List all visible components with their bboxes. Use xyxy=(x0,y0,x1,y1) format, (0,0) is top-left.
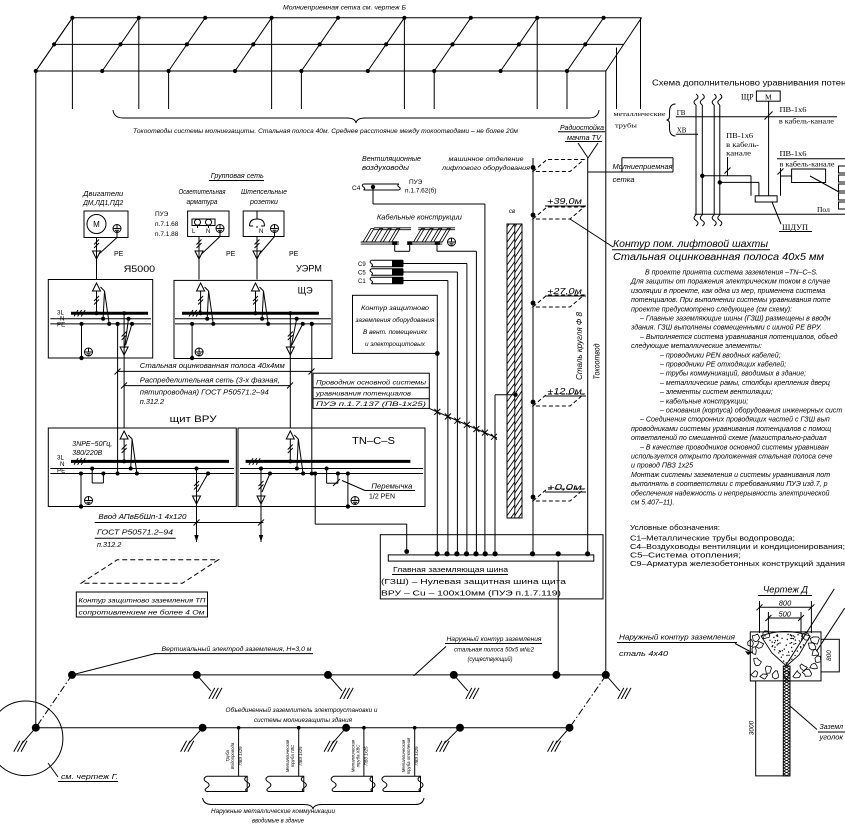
svg-text:– элементы систем вентиляции;: – элементы систем вентиляции; xyxy=(659,389,773,396)
bus VRU1 PE xyxy=(50,473,234,475)
svg-text:1/2 PEN: 1/2 PEN xyxy=(369,492,395,501)
svg-text:ПУЭ: ПУЭ xyxy=(155,211,169,218)
bar SHDUP xyxy=(755,196,777,202)
lightning mesh roof grid xyxy=(34,16,642,109)
wire from M down xyxy=(768,101,770,196)
svg-text:ПВЗ 1х25: ПВЗ 1х25 xyxy=(363,746,368,766)
svg-text:Групповая сеть: Групповая сеть xyxy=(211,173,264,180)
box VRU section 1 xyxy=(48,428,236,507)
wire entry diagonals x=96.5 xyxy=(101,287,105,291)
node mesh bottom joint 2 xyxy=(100,69,104,73)
wire net exit x=124.1 xyxy=(122,311,126,315)
pipe entering building x=414.7 xyxy=(384,776,420,791)
arrow motor PE xyxy=(93,251,101,259)
svg-text:Распределительная сеть (3-х фа: Распределительная сеть (3-х фазная, xyxy=(140,375,280,384)
svg-text:– кабельные конструкции;: – кабельные конструкции; xyxy=(659,397,748,405)
svg-text:труба ГВС: труба ГВС xyxy=(290,744,295,767)
wire PE to earth left xyxy=(190,322,194,326)
node mesh mid joint 1 xyxy=(52,42,56,46)
wire down-conductor from mast x=587.7 xyxy=(587,158,589,553)
wire radiator leader to legend xyxy=(810,176,839,192)
legend mini boxes right edge xyxy=(839,166,845,173)
svg-text:арматура: арматура xyxy=(187,199,218,206)
wire PE diagonal to exit xyxy=(301,322,305,326)
flag level mark xyxy=(533,394,584,406)
svg-text:п.7.1.68: п.7.1.68 xyxy=(155,221,179,228)
wire down-conductor drop x=72.4 xyxy=(71,18,73,109)
node GZSh tap x=437.1 xyxy=(435,551,440,556)
svg-text:800: 800 xyxy=(826,650,833,661)
ground symbol cable trays xyxy=(448,238,456,246)
wire level line steel rod xyxy=(532,158,534,553)
svg-text:ХВ: ХВ xyxy=(677,127,687,135)
wire pipe1 to SHDUP xyxy=(702,175,751,177)
wire lighting PE drop xyxy=(198,237,200,280)
svg-text:уголок: уголок xyxy=(818,735,843,742)
svg-text:ПВ-1х6: ПВ-1х6 xyxy=(726,132,754,140)
label earth angle xyxy=(790,706,817,730)
wire mesh middle chord xyxy=(54,43,623,45)
wire steel strip riser left xyxy=(117,358,119,474)
wire С1 to GZSh xyxy=(403,280,448,282)
label mesh callout box xyxy=(588,171,673,173)
svg-text:С1–Металлические трубы водопро: С1–Металлические трубы водопровода; xyxy=(630,535,795,543)
wire PE diagonal to exit xyxy=(130,322,134,326)
svg-text:Кабельные конструкции: Кабельные конструкции xyxy=(377,214,462,222)
hatch on 3L panel1 xyxy=(74,310,78,317)
svg-text:3000: 3000 xyxy=(749,720,756,735)
svg-text:Штепсельные: Штепсельные xyxy=(241,189,287,196)
wire mesh diagonal 6 xyxy=(368,18,405,71)
svg-text:Осветительная: Осветительная xyxy=(179,189,226,196)
wire down-conductor drop x=537.2 xyxy=(536,18,538,109)
wire entry diagonals x=200.6 xyxy=(205,287,209,291)
ground symbol in motor box xyxy=(113,225,121,233)
svg-text:N: N xyxy=(259,229,263,235)
wire tray link xyxy=(394,245,396,251)
wire mesh bottom chord xyxy=(36,70,606,72)
svg-text:розетки: розетки xyxy=(249,199,278,206)
wire equipment contour to GZSh xyxy=(436,353,438,553)
wire pipe2 to SHDUP xyxy=(720,181,759,183)
wire VRU entry diagonals xyxy=(294,435,298,439)
svg-text:обеспечения надежность и непре: обеспечения надежность и непрерывность э… xyxy=(631,489,829,497)
node upper loop right wall xyxy=(602,671,610,679)
bus VRU2 PE xyxy=(240,473,423,475)
svg-text:С9–Арматура железобетонных кон: С9–Арматура железобетонных конструкций з… xyxy=(630,560,845,568)
svg-text:и провод ПВЗ 1х25: и провод ПВЗ 1х25 xyxy=(631,462,693,470)
circle detail G xyxy=(0,701,63,776)
bus VRU2 3L thick xyxy=(246,460,411,463)
dim line distribution net xyxy=(124,385,290,387)
svg-text:PE: PE xyxy=(57,322,65,329)
svg-text:(ГЗШ) – Нулевая защитная шина: (ГЗШ) – Нулевая защитная шина щита xyxy=(381,577,566,586)
disconnect entry x=96.5 xyxy=(93,283,101,291)
svg-text:пятипроводная) ГОСТ Р50571.2–9: пятипроводная) ГОСТ Р50571.2–94 xyxy=(140,387,269,396)
node GZSh tap x=558.2 xyxy=(556,551,561,556)
wire N diagonal to exit xyxy=(127,317,131,321)
node GZSh tap x=447 xyxy=(444,551,449,556)
node lower loop 2 xyxy=(199,724,207,732)
svg-text:С9: С9 xyxy=(358,262,366,268)
node GZSh tap x=466.5 xyxy=(464,551,469,556)
svg-text:п.312.2: п.312.2 xyxy=(97,540,121,549)
node pipe2 junction xyxy=(718,180,722,184)
pipe riser 1 xyxy=(694,94,698,105)
node mesh mid joint 2 xyxy=(118,42,122,46)
box equipment earthing contour xyxy=(353,295,438,353)
svg-text:Главная заземляющая шина: Главная заземляющая шина xyxy=(393,565,508,574)
box distribution board M xyxy=(756,91,780,101)
svg-text:ПВ-1х6: ПВ-1х6 xyxy=(780,150,808,158)
box panel ShchE xyxy=(174,280,332,358)
wire trays to GZSh xyxy=(436,245,438,251)
wire floor line xyxy=(695,213,845,215)
svg-text:УЭРМ: УЭРМ xyxy=(296,264,322,275)
leader diagonal 2 xyxy=(817,608,845,651)
svg-text:лифтового оборудования: лифтового оборудования xyxy=(441,164,531,172)
svg-text:изоляции в проекте, как одна и: изоляции в проекте, как одна из мер, при… xyxy=(631,287,825,295)
svg-text:металлические: металлические xyxy=(614,111,666,118)
svg-text:Я5000: Я5000 xyxy=(124,264,156,275)
ground symbol VRU2 xyxy=(351,497,359,505)
hatch on 3L panel2 xyxy=(189,310,193,317)
svg-text:машинное отделение: машинное отделение xyxy=(449,155,524,163)
svg-text:ШДУП: ШДУП xyxy=(782,223,808,232)
node lower loop 5 xyxy=(566,724,574,732)
svg-text:N: N xyxy=(206,229,210,235)
node upper loop GZSh tap xyxy=(552,671,560,679)
wire PEN exit to GZSh xyxy=(313,472,317,476)
wire down-conductor short drop x=168.6 xyxy=(168,71,170,109)
svg-text:в кабель-канале: в кабель-канале xyxy=(779,118,834,126)
svg-text:см 5.407–11).: см 5.407–11). xyxy=(631,500,675,507)
svg-text:Водопровода: Водопровода xyxy=(230,742,235,769)
svg-text:+39,0м: +39,0м xyxy=(547,196,582,206)
node mesh bottom joint 9 xyxy=(565,69,569,73)
flag level mark xyxy=(533,295,584,307)
ground slashes xyxy=(444,728,460,744)
arrow lighting PE xyxy=(195,251,203,259)
wire diagonal upper-lower right xyxy=(570,676,606,728)
wire lower earth loop xyxy=(36,727,570,729)
ground slashes xyxy=(189,728,203,744)
node mesh mid joint 5 xyxy=(318,42,322,46)
antenna V symbol xyxy=(578,143,588,158)
jumper N-PE VRU1 xyxy=(90,467,94,471)
cable tray 1 xyxy=(361,241,399,243)
node mesh mid joint 4 xyxy=(251,42,255,46)
svg-text:– металлические рамы, столбцы: – металлические рамы, столбцы крепления … xyxy=(659,379,830,387)
wire mesh diagonal 2 xyxy=(102,18,139,71)
svg-text:ПВЗ 1х25: ПВЗ 1х25 xyxy=(298,746,303,766)
svg-text:щит ВРУ: щит ВРУ xyxy=(170,414,218,425)
svg-text:Заземл: Заземл xyxy=(820,724,844,731)
wire PE strip dot panel2 xyxy=(310,322,314,326)
svg-text:Стальная оцинкованная полоса 4: Стальная оцинкованная полоса 40х4мм xyxy=(140,361,285,370)
wire steel strip to PE VRU2 xyxy=(310,472,314,476)
node equipment contour corner xyxy=(435,351,440,356)
svg-text:Токоотвод: Токоотвод xyxy=(593,343,602,380)
svg-text:В проекте принята система зазе: В проекте принята система заземления –TN… xyxy=(645,270,818,277)
wire lighting gnd slant xyxy=(219,233,221,237)
svg-text:С5: С5 xyxy=(358,271,366,277)
svg-text:– трубы коммуникаций, вводимых: – трубы коммуникаций, вводимых в здание; xyxy=(659,370,806,378)
node mesh mid joint 6 xyxy=(384,42,388,46)
node mesh top joint 7 xyxy=(469,16,473,20)
wire steel strip riser right xyxy=(311,358,313,474)
label contour TP box xyxy=(76,592,207,617)
dim line steel strip xyxy=(118,370,312,372)
wire VRU entry diagonals xyxy=(128,435,132,439)
svg-text:Наружный контур заземления: Наружный контур заземления xyxy=(447,636,543,643)
svg-text:ЩР: ЩР xyxy=(741,93,754,102)
dim 500 xyxy=(767,612,769,633)
wire PE strip exit xyxy=(310,322,314,326)
wire VRU2 PE diagonal left xyxy=(268,472,272,476)
svg-text:PE: PE xyxy=(289,251,299,258)
pipe riser 2 xyxy=(712,94,716,105)
wire entry diagonals x=255.5 xyxy=(260,287,264,291)
ground slashes xyxy=(328,675,342,691)
motor M symbol xyxy=(87,215,106,234)
node GZSh tap x=485.2 xyxy=(483,551,488,556)
svg-text:ЩЭ: ЩЭ xyxy=(298,286,314,296)
wire right short drop x=640.5 xyxy=(640,18,642,109)
node mesh top joint 8 xyxy=(535,16,539,20)
jumper PEN VRU2 xyxy=(325,467,329,471)
wire right short drop x=616.5 xyxy=(616,48,618,110)
svg-text:Сталь кругля Ф 8: Сталь кругля Ф 8 xyxy=(575,311,584,380)
node mesh bottom joint 1 xyxy=(34,69,38,73)
svg-text:трубы: трубы xyxy=(615,123,638,130)
node lower loop 4 xyxy=(456,724,464,732)
pipe entering building x=238.6 xyxy=(207,776,248,791)
node upper loop 1 xyxy=(68,671,76,679)
wire VRU2 left feeder exit xyxy=(259,467,263,471)
wire GZSh to earth loop xyxy=(557,561,559,675)
svg-text:С4–Воздуховоды вентиляции и ко: С4–Воздуховоды вентиляции и кондициониро… xyxy=(630,544,845,551)
node mesh mid joint 9 xyxy=(583,42,587,46)
disconnect VRU entry x=124.1 xyxy=(120,431,128,439)
arrow socket PE xyxy=(253,251,261,259)
pipe entering building x=298.7 xyxy=(268,776,303,791)
wire left building wall xyxy=(35,71,37,728)
svg-text:Схема дополнительново уравнива: Схема дополнительново уравнивания потенц… xyxy=(652,78,845,88)
svg-text:п.312.2: п.312.2 xyxy=(140,397,164,406)
wire right building wall xyxy=(605,71,607,676)
svg-text:уравнивания потенциалов: уравнивания потенциалов xyxy=(315,391,412,398)
svg-text:В вент. помещениях: В вент. помещениях xyxy=(363,329,428,336)
node mesh bottom joint 7 xyxy=(432,69,436,73)
wire VRU1 PE diagonal right xyxy=(206,472,210,476)
svg-text:следующие металлические элемен: следующие металлические элементы: xyxy=(631,342,762,350)
node upper loop 3 xyxy=(324,671,332,679)
svg-text:здания. ГЗШ выполнены совмеще: здания. ГЗШ выполнены совмещенными с шин… xyxy=(630,324,822,332)
wire mesh diagonal 7 xyxy=(434,18,471,71)
wire distribution net riser right xyxy=(289,358,291,428)
svg-text:п.1.7.62(б): п.1.7.62(б) xyxy=(405,187,436,195)
wire steel strip to PE VRU1 xyxy=(116,472,120,476)
svg-text:Наружные металлические коммуни: Наружные металлические коммуникации xyxy=(211,808,336,815)
svg-text:PE: PE xyxy=(226,251,236,258)
brace incoming pipes xyxy=(203,798,424,809)
wire pipe bond x=363.9 xyxy=(363,728,365,777)
svg-text:Контур защитново заземления ТП: Контур защитново заземления ТП xyxy=(79,598,206,605)
wire to heating radiator box xyxy=(781,175,792,177)
svg-text:380/220В: 380/220В xyxy=(72,450,102,457)
svg-text:заземления оборудования: заземления оборудования xyxy=(355,316,435,324)
wire HV line xyxy=(676,133,698,135)
wire pipe bond x=298.7 xyxy=(298,728,300,777)
cable tray 2 xyxy=(411,241,442,243)
node mesh top joint 4 xyxy=(270,16,274,20)
node GZSh tap x=495.1 xyxy=(493,551,498,556)
electrode angle bar checkered xyxy=(783,666,790,776)
svg-text:Перемычка: Перемычка xyxy=(371,484,412,491)
dim 800 top xyxy=(759,601,761,633)
svg-text:Стальная оцинкованная полоса 4: Стальная оцинкованная полоса 40х5 мм xyxy=(613,251,824,263)
wire distribution net riser left xyxy=(123,358,125,428)
node mesh top joint 5 xyxy=(336,16,340,20)
svg-text:воздуховоды: воздуховоды xyxy=(362,164,410,172)
svg-text:и электрощитовых: и электрощитовых xyxy=(365,341,426,348)
svg-text:труба отопления: труба отопления xyxy=(406,737,411,774)
node mesh mid joint 7 xyxy=(450,42,454,46)
node upper loop 2 xyxy=(193,671,201,679)
svg-text:см. чертеж Г.: см. чертеж Г. xyxy=(61,772,118,781)
box main bonding conductor label xyxy=(313,373,429,408)
disconnect VRU entry x=290.3 xyxy=(286,431,294,439)
svg-text:Монтаж системы заземления и си: Монтаж системы заземления и системы урав… xyxy=(631,472,830,479)
pit right extension xyxy=(821,639,839,672)
hatch on VRU1 3L xyxy=(74,458,78,465)
ground slashes xyxy=(22,728,36,744)
wire socket gnd slant xyxy=(274,233,276,237)
node mesh bottom joint 4 xyxy=(233,69,237,73)
svg-text:п.7.1.88: п.7.1.88 xyxy=(155,231,179,238)
node GZSh tap x=532.5 xyxy=(530,551,535,556)
svg-text:Токоотводы системы молниезащит: Токоотводы системы молниезащиты. Стальна… xyxy=(133,128,519,135)
svg-text:С5–Система отопления;: С5–Система отопления; xyxy=(630,553,741,560)
svg-text:в кабель-: в кабель- xyxy=(726,141,760,149)
svg-text:М: М xyxy=(93,220,100,229)
luminaire symbol xyxy=(192,219,215,226)
svg-text:сталь 4х40: сталь 4х40 xyxy=(619,649,669,658)
hatch on VRU2 3L xyxy=(249,458,253,465)
svg-text:500: 500 xyxy=(778,609,791,618)
svg-text:– Соединения сторонних проводя: – Соединения сторонних проводящих частей… xyxy=(639,416,830,424)
svg-text:ВРУ – Cu – 100х10мм (ПУЭ п.1.7: ВРУ – Cu – 100х10мм (ПУЭ п.1.7.119) xyxy=(381,589,561,598)
box socket outlets xyxy=(243,211,284,237)
box motor DM xyxy=(84,211,128,238)
svg-text:С4: С4 xyxy=(352,185,361,192)
bus 3L thick xyxy=(71,312,148,315)
bus PE xyxy=(175,323,331,325)
svg-text:800: 800 xyxy=(779,599,792,608)
flag level mark xyxy=(533,489,584,501)
wire C4 to GZSh xyxy=(372,189,374,204)
wire down-conductor short drop x=434.2 xyxy=(433,71,435,109)
svg-text:TN–C–S: TN–C–S xyxy=(352,436,395,447)
wire VRU1 left earth xyxy=(79,472,83,476)
rubble stones xyxy=(752,634,759,642)
bus N xyxy=(50,318,151,320)
box panel Ya5000 xyxy=(48,280,152,359)
box VRU section 2 xyxy=(238,428,425,507)
svg-text:св: св xyxy=(509,209,515,215)
svg-text:ГВ: ГВ xyxy=(677,109,686,117)
node pipe1 junction xyxy=(700,174,704,178)
svg-text:Молниеприемная сетка см. черте: Молниеприемная сетка см. чертеж Б xyxy=(283,5,406,12)
wire bonding conductor with crosses xyxy=(429,408,497,438)
additional equipotential bonding scheme xyxy=(614,78,845,233)
svg-text:ПВЗ 1х25: ПВЗ 1х25 xyxy=(238,746,243,766)
ground symbol VRU1 xyxy=(85,497,93,505)
pipe entering building x=363.9 xyxy=(334,776,373,791)
wire mesh diagonal 9 xyxy=(567,18,604,71)
svg-text:М: М xyxy=(765,92,772,101)
wire down-conductor drop x=138.8 xyxy=(138,18,140,109)
disconnect entry x=255.5 xyxy=(252,283,260,291)
bus VRU2 N xyxy=(240,468,423,470)
svg-text:стальная полоса 50х5 м№2: стальная полоса 50х5 м№2 xyxy=(454,647,535,654)
svg-text:канале: канале xyxy=(726,150,751,158)
svg-text:ГОСТ Р50571.2–94: ГОСТ Р50571.2–94 xyxy=(97,528,173,537)
flag level mark xyxy=(533,160,584,172)
svg-text:вводимые в здание: вводимые в здание xyxy=(252,818,305,825)
bus VRU1 3L thick xyxy=(71,460,229,463)
svg-text:Для защиты от поражения электр: Для защиты от поражения электрическим то… xyxy=(630,279,831,286)
wire PV-1x6 no2 leader xyxy=(727,157,729,176)
node mesh top joint 3 xyxy=(203,16,207,20)
svg-text:мачта TV: мачта TV xyxy=(567,133,602,142)
wire PE strip dot panel1 xyxy=(116,322,120,326)
label see drawing G xyxy=(48,763,58,777)
svg-text:PE: PE xyxy=(114,251,124,258)
node mesh bottom joint 3 xyxy=(167,69,171,73)
wire riser tap to GZSh xyxy=(495,394,516,396)
wire mesh diagonal 3 xyxy=(169,18,206,71)
ground symbol in lighting box xyxy=(216,225,224,233)
node lower loop 3 xyxy=(342,724,350,732)
svg-text:ПУЭ п.1.7.137 (ПВ-1х25): ПУЭ п.1.7.137 (ПВ-1х25) xyxy=(316,401,426,408)
label SHDUP xyxy=(772,202,781,224)
node upper loop 4 xyxy=(450,671,458,679)
wire С5 to GZSh xyxy=(403,271,457,273)
hatched wall column xyxy=(507,224,522,518)
svg-text:ПВ-1х6: ПВ-1х6 xyxy=(780,106,808,114)
svg-text:ПВЗ 1х25: ПВЗ 1х25 xyxy=(414,746,419,766)
svg-text:– проводники PEN вводных кабел: – проводники PEN вводных кабелей; xyxy=(659,351,781,359)
node GZSh tap x=587.6 xyxy=(585,551,590,556)
pit band rubble xyxy=(750,632,821,681)
svg-text:Ввод АПвБбШп-1 4х120: Ввод АПвБбШп-1 4х120 xyxy=(98,512,186,521)
svg-text:сетка: сетка xyxy=(613,177,635,184)
node mesh bottom joint 8 xyxy=(499,69,503,73)
svg-text:Чертеж Д: Чертеж Д xyxy=(763,585,809,595)
flag level mark xyxy=(533,207,584,219)
wire mesh diagonal 8 xyxy=(501,18,538,71)
box lighting fixture xyxy=(188,211,229,237)
ground symbol in socket box xyxy=(271,225,279,233)
svg-text:используется открыто проложенн: используется открыто проложенная стальна… xyxy=(631,454,833,461)
bus N xyxy=(175,318,331,320)
contour TP dashed parallelogram xyxy=(81,560,218,583)
wire down-conductor drop x=271.6 xyxy=(271,18,273,109)
svg-text:– Выполняется система уравнива: – Выполняется система уравнивания потенц… xyxy=(639,333,838,341)
svg-text:Двигатели: Двигатели xyxy=(82,191,123,198)
